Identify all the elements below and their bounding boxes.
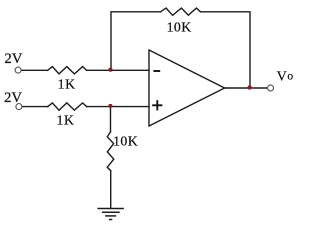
svg-text:V: V — [277, 69, 287, 84]
svg-text:1K: 1K — [58, 76, 76, 91]
svg-text:2V: 2V — [4, 90, 22, 106]
svg-text:10K: 10K — [167, 19, 192, 34]
svg-text:1K: 1K — [57, 112, 75, 127]
svg-text:2V: 2V — [4, 51, 22, 67]
svg-text:10K: 10K — [113, 133, 138, 148]
svg-text:o: o — [287, 70, 293, 82]
